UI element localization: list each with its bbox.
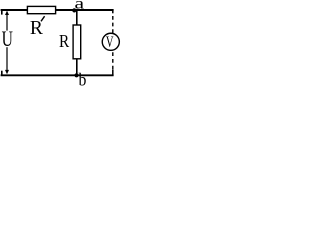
svg-text:a: a xyxy=(75,0,85,13)
resistor R' (horizontal box) xyxy=(27,6,55,13)
svg-text:b: b xyxy=(79,70,87,86)
svg-text:R: R xyxy=(59,31,70,51)
wire dashed voltmeter lead upper xyxy=(112,16,114,33)
voltage arrow U head down xyxy=(5,70,9,74)
wire right corner top solid xyxy=(112,9,114,13)
label R' prime mark xyxy=(41,16,45,21)
node b junction dot xyxy=(74,73,78,77)
wire bottom horizontal xyxy=(1,74,114,76)
terminal tick bottom-left xyxy=(1,71,3,76)
wire right corner bottom solid xyxy=(112,70,114,77)
voltage arrow U head up xyxy=(5,11,9,15)
terminal tick top-left xyxy=(1,10,3,15)
voltmeter V1 circle xyxy=(102,33,119,50)
wire top horizontal xyxy=(1,9,114,11)
voltage arrow U shaft upper xyxy=(6,14,8,31)
resistor R (vertical box) xyxy=(73,25,81,59)
wire dashed voltmeter lead lower xyxy=(112,52,114,69)
node a junction dot xyxy=(72,8,76,12)
svg-text:V: V xyxy=(106,33,114,51)
wire vertical middle branch xyxy=(76,10,78,75)
voltage arrow U shaft lower xyxy=(6,47,8,71)
